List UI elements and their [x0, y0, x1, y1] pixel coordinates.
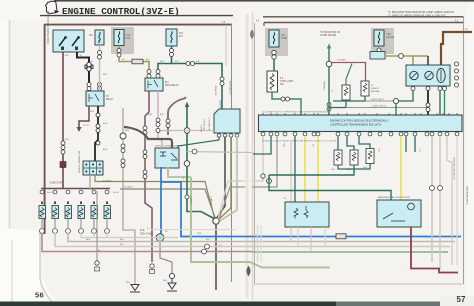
- svg-text:B-R: B-R: [196, 61, 200, 63]
- injector bus wire (maroon): [41, 188, 110, 190]
- connector big circle on gray: [120, 133, 126, 139]
- right page frame top line 2 (bus): [264, 22, 463, 24]
- svg-text:CONTROLLED TRANSMISSION ECU (A: CONTROLLED TRANSMISSION ECU (A/T): [330, 123, 381, 127]
- wire teal merge to node: [269, 169, 354, 175]
- wire below fuel pump to ground: [160, 241, 172, 273]
- injector I6: [104, 190, 111, 233]
- wire teal ECU to solenoid S3: [359, 136, 370, 149]
- wire yellow TPS feed 1: [304, 136, 306, 202]
- svg-text:W-R: W-R: [284, 142, 286, 147]
- TPS drop 4: [324, 227, 326, 247]
- connector node on teal vertical lower: [184, 161, 190, 167]
- connector stack right of cluster: [455, 62, 459, 87]
- svg-text:W-B B-Y: W-B B-Y: [201, 124, 203, 132]
- left page frame left border: [44, 24, 46, 234]
- bus end tick left: [263, 23, 265, 27]
- svg-text:B-W: B-W: [103, 123, 107, 125]
- inline dark connector on maroon feed: [60, 162, 66, 168]
- connector circles under fuse F3: [170, 49, 174, 57]
- scan bottom edge shadow: [0, 302, 474, 306]
- wire dark from check connector right at B-O row: [95, 175, 215, 218]
- relay R2 EFI main relay: [145, 78, 163, 91]
- wire teal from ECU stub to circuit opening relay: [178, 137, 219, 149]
- fuse F4 STOP: [269, 30, 279, 47]
- wire teal vertical into node: [268, 175, 270, 179]
- wire white pair vertical 2: [439, 136, 441, 270]
- teal drop below band 2: [414, 136, 416, 152]
- svg-text:B-O: B-O: [206, 239, 210, 241]
- wire blue from circuit opening relay to fuel pump: [160, 167, 162, 234]
- svg-text:+B +B1 BATT IGT: +B +B1 BATT IGT E1 OX THW VTA IDL VC E2 …: [262, 111, 330, 114]
- wire crossing spine row 2: [219, 187, 245, 220]
- svg-text:E01 E02 No.10 No.20 STA: E01 E02 No.10 No.20 STA VF T TE1 TE2 VAF…: [262, 140, 337, 143]
- wire white short row from injectors 4-6: [81, 233, 178, 238]
- svg-text:P-R (A/T): P-R (A/T): [337, 59, 347, 62]
- svg-text:B-Y(A/T) B-O: B-Y(A/T) B-O: [208, 117, 211, 130]
- wire teal TPS feed: [294, 136, 296, 202]
- svg-text:FROM POWER SOURCE SYS: FROM POWER SOURCE SYS: [47, 11, 50, 44]
- faint stub vertical near spine 1: [257, 225, 259, 262]
- svg-text:TO ST: TO ST: [83, 125, 90, 127]
- wire green stop light switch to ECU: [272, 92, 301, 115]
- combination meter pins: [411, 87, 447, 91]
- wire teal from fuse F3: [158, 46, 172, 78]
- right page frame top line 1: [263, 16, 463, 18]
- connector pair above ECU on teal: [327, 103, 331, 112]
- wire sage from circuit opening relay: [168, 167, 191, 177]
- svg-text:TO A/C AMPLIFIER: TO A/C AMPLIFIER: [466, 185, 469, 205]
- svg-text:ENGINE: ENGINE: [371, 91, 380, 93]
- right page frame right border: [463, 16, 465, 284]
- inline connector on blue SPD: [336, 234, 346, 239]
- connector on gray lower: [121, 144, 125, 168]
- connector on black wire: [85, 62, 93, 71]
- svg-text:STOP LIGHT: STOP LIGHT: [280, 81, 294, 83]
- svg-text:W-B: W-B: [126, 282, 131, 284]
- wire yellow ECU to neutral start switch: [400, 136, 402, 200]
- svg-text:PARK/NEUTRAL POSITION SW: PARK/NEUTRAL POSITION SW: [378, 196, 411, 199]
- ECU band: [259, 115, 463, 132]
- wire maroon from relay R1 with arrow to ST relay: [79, 106, 89, 127]
- svg-text:B-R(A/T): B-R(A/T): [219, 99, 222, 108]
- left page frame top border: [44, 24, 232, 26]
- wire gray curve from upper right: [168, 98, 186, 135]
- assorted wire code labels left page: [47, 55, 202, 246]
- wire teal ECU to solenoid S2: [347, 136, 354, 150]
- wire black cluster to ECU: [427, 91, 429, 116]
- faint stub vertical near spine 2: [260, 225, 262, 262]
- wire blue SPD long horizontal: [161, 182, 461, 237]
- solenoid resistor S1: [334, 150, 342, 165]
- wire teal fuse F4 to stop light switch: [273, 59, 275, 71]
- svg-text:W-B: W-B: [163, 280, 168, 282]
- connector stack on maroon drop: [143, 126, 147, 179]
- injector 5 drop: [93, 233, 95, 238]
- left page frame right border: [231, 24, 233, 282]
- svg-text:G-W(A/T): G-W(A/T): [323, 81, 326, 90]
- wire teal branch to ECU stub: [172, 64, 223, 110]
- injector I5: [91, 190, 98, 233]
- svg-text:B-W: B-W: [148, 114, 152, 116]
- connector node on teal vertical upper: [184, 128, 190, 134]
- connector below fuel pump: [169, 273, 174, 278]
- wire brown from frame corner to combination meter: [441, 32, 472, 65]
- svg-text:ENGINE CONTROL MODULE ELECTRON: ENGINE CONTROL MODULE ELECTRONICALLY: [330, 119, 389, 123]
- svg-text:7.5A: 7.5A: [386, 33, 391, 36]
- combination meter box: [406, 65, 450, 86]
- bottom-left page curl: [0, 228, 58, 306]
- circuit opening relay: [155, 148, 179, 168]
- page spine gutter: [239, 10, 253, 306]
- junction node big circle: [213, 218, 219, 224]
- svg-text:15A: 15A: [281, 34, 286, 37]
- wire olive junction block to combination meter: [385, 55, 428, 57]
- ground G1: [130, 285, 140, 293]
- wire white pair vertical 1: [431, 136, 433, 262]
- spine staple bottom: [247, 266, 251, 276]
- svg-text:STOP: STOP: [281, 38, 288, 40]
- resistor box A: [342, 85, 350, 100]
- svg-text:B-W: B-W: [90, 111, 94, 113]
- wire gray diag to junction node: [220, 137, 238, 222]
- band top pin ticks: [263, 113, 457, 115]
- svg-text:L-R: L-R: [313, 143, 315, 147]
- title underline: [40, 15, 233, 17]
- wire black diag from ECU stub to junction node: [217, 137, 225, 218]
- wire white ECU pin 277 down: [252, 136, 277, 187]
- thick dark feed into COR top: [124, 127, 172, 148]
- svg-text:COMB. METER: COMB. METER: [320, 35, 337, 37]
- wire olive from fuse F2 to relay R2: [119, 46, 149, 79]
- dark drop into cluster: [427, 56, 429, 65]
- wire black from ignition switch to relay R1: [77, 52, 89, 91]
- svg-text:G-B(A/T): G-B(A/T): [190, 196, 193, 205]
- connector on white row: [205, 244, 210, 249]
- stop light switch: [267, 71, 278, 92]
- svg-text:7.5A: 7.5A: [126, 34, 131, 37]
- left paper margin: [0, 0, 10, 306]
- svg-text:B-B: B-B: [160, 114, 164, 116]
- small filter box on maroon drop: [150, 270, 155, 274]
- svg-text:MAIN RELAY: MAIN RELAY: [165, 84, 179, 87]
- spine staple top: [250, 30, 253, 39]
- connector on maroon feed: [61, 141, 65, 154]
- bottom area code labels: [86, 239, 223, 284]
- wire dark second row B-Y: [120, 189, 216, 219]
- wire gray row at y130: [158, 130, 214, 132]
- ECU stub pins: [217, 134, 239, 138]
- svg-text:A/T FIELD: A/T FIELD: [215, 85, 218, 95]
- svg-text:*1 (A/T ONLY): *1 (A/T ONLY): [370, 98, 384, 101]
- solenoid resistor S2: [350, 150, 358, 165]
- svg-text:Y-G: Y-G: [420, 148, 422, 152]
- wire teal cluster right to ECU: [439, 91, 441, 116]
- wire white right short 2: [456, 136, 458, 265]
- svg-text:*2 (A/T ONLY): *2 (A/T ONLY): [372, 105, 386, 108]
- wire white row from injector 3: [55, 233, 450, 247]
- TPS drop 3: [310, 227, 312, 252]
- wire sage long to right page: [191, 177, 330, 268]
- svg-text:TE1 TE2 E1: TE1 TE2 E1: [204, 118, 206, 130]
- connector pairs above relay R1: [87, 83, 102, 91]
- connector node on *1 row: [393, 98, 398, 103]
- svg-text:EFI: EFI: [165, 82, 169, 84]
- fuse F3 EFI: [166, 29, 177, 46]
- injector 6 drop: [106, 233, 108, 238]
- wire dark below junction to bottom: [215, 224, 217, 290]
- svg-text:No.10: No.10: [47, 192, 53, 194]
- connector node on green vertical: [326, 61, 332, 67]
- svg-text:W-B: W-B: [140, 230, 145, 232]
- svg-text:57: 57: [457, 295, 466, 304]
- band bottom pin stubs: [263, 131, 457, 133]
- ECU stub box (left page edge): [214, 109, 240, 133]
- title icon: [46, 1, 58, 14]
- fuel pump: [156, 234, 164, 242]
- connector pair on white verticals: [430, 186, 443, 191]
- connector on that wire: [95, 261, 99, 265]
- wire teal node down and long right: [269, 178, 391, 201]
- wire thin row *1: [365, 100, 394, 102]
- svg-text:CHECK CONNECTOR: CHECK CONNECTOR: [79, 150, 81, 173]
- svg-text:B-R: B-R: [175, 61, 179, 63]
- wire green cluster right to ECU: [444, 91, 446, 116]
- right page outer margin: [468, 3, 474, 298]
- fuse F5 GAUGE: [374, 30, 384, 46]
- teal drop below band 1: [405, 136, 407, 152]
- svg-text:B-O(A/T): B-O(A/T): [210, 196, 213, 205]
- connector small on teal vertical bottom: [185, 195, 189, 199]
- throttle position sensor box: [285, 202, 329, 227]
- wire gray row from injector 2: [68, 233, 455, 242]
- wire yellow TPS feed 2: [317, 136, 319, 202]
- svg-text:INJECTOR: INJECTOR: [50, 182, 62, 185]
- wire teal ECU to left page row: [253, 136, 271, 154]
- svg-text:B-Y: B-Y: [122, 59, 126, 61]
- wire teal long vertical with up arrow: [187, 106, 214, 219]
- fuse F2 gray pad: [111, 27, 134, 54]
- ignition switch SW1: [53, 30, 84, 52]
- right page frame bottom border: [254, 283, 463, 285]
- faint gray vertical near left page right edge: [225, 25, 227, 66]
- wire pink from relay R2 to circuit opening relay: [158, 91, 162, 148]
- svg-text:W-B: W-B: [125, 130, 130, 132]
- wire maroon from relay R2 down long: [145, 91, 152, 262]
- svg-text:B-Y(A/T): B-Y(A/T): [124, 186, 133, 189]
- connector under fuse F5: [377, 48, 381, 57]
- svg-text:GAUGE: GAUGE: [386, 36, 395, 39]
- connectors on black check wire: [96, 113, 100, 145]
- TPS bottom drops to rows: [290, 227, 292, 242]
- wire green indicator vertical with up arrow: [328, 47, 330, 115]
- junction block small box: [370, 52, 385, 60]
- svg-text:W-R: W-R: [103, 74, 108, 76]
- svg-text:RELAY: RELAY: [106, 98, 114, 101]
- connector node on teal return: [267, 179, 272, 184]
- noise filter box: [95, 267, 100, 271]
- injector I3: [65, 190, 72, 233]
- injector I4: [78, 190, 85, 233]
- inline connector on teal branch: [186, 62, 195, 66]
- connector under fuse F4: [272, 50, 276, 59]
- wire white TPS feed: [290, 141, 292, 202]
- wire thin row *2: [346, 107, 428, 109]
- fuse F2 7.5A IGN: [114, 30, 124, 46]
- wire gray row at y151 crossing to right page: [187, 152, 252, 153]
- connector on gray curve: [166, 119, 170, 128]
- wire maroon branch to resistor A: [332, 63, 366, 82]
- wire green branch to lamp B: [346, 64, 352, 86]
- connector near bottom of maroon drop: [150, 264, 154, 268]
- svg-text:B-R: B-R: [65, 139, 69, 141]
- svg-text:*1: MALFUNCTION INDICATOR LAMP: *1: MALFUNCTION INDICATOR LAMP CHECK CIR…: [388, 10, 455, 14]
- relay R2 top pin circles: [147, 70, 160, 79]
- wire white ECU to left page row: [252, 136, 263, 181]
- svg-text:TO CRUISE CONTROL: TO CRUISE CONTROL: [454, 156, 456, 180]
- injector I2: [52, 190, 59, 233]
- wire white right short 1: [447, 136, 452, 265]
- injector I1: [39, 190, 46, 233]
- connector circles under fuse F2: [117, 49, 121, 58]
- solenoid resistor S3: [366, 149, 374, 164]
- svg-text:EFI: EFI: [179, 36, 183, 38]
- wire teal lamp B down then left: [333, 96, 365, 101]
- wire gray long vertical to ground: [123, 108, 135, 284]
- wire black from relay R1 to check connector: [95, 106, 98, 161]
- svg-text:T.P: T.P: [283, 198, 287, 200]
- faint row above cross rows: [150, 229, 236, 231]
- connector on teal vertical: [220, 77, 224, 86]
- svg-text:B-Y: B-Y: [146, 59, 150, 61]
- ground G2: [167, 279, 177, 291]
- wire green row right page: [252, 251, 448, 253]
- svg-text:56: 56: [35, 291, 44, 300]
- right page frame left border: [254, 23, 256, 284]
- ECU band bottom pin circles: [261, 132, 459, 136]
- wire maroon main feed from ignition switch: [62, 52, 64, 189]
- inline connector on olive wire: [132, 59, 143, 64]
- svg-text:CONTROLLED: CONTROLLED: [230, 80, 232, 95]
- wire teal speedo to *1 row: [396, 91, 413, 102]
- wire olive diag to junction node: [219, 137, 232, 220]
- injector pin squares: [41, 202, 108, 205]
- wire teal ECU to solenoid S1: [337, 136, 339, 150]
- wire crossing spine row 1: [218, 181, 245, 219]
- svg-text:No.20: No.20: [113, 192, 119, 194]
- check connector: [83, 161, 103, 175]
- wire gray from check connector down: [90, 175, 97, 263]
- olive drop into cluster: [412, 56, 414, 65]
- neutral start switch box: [377, 200, 421, 227]
- wire teal solenoid returns merge: [338, 164, 370, 170]
- svg-text:SPD: SPD: [197, 233, 202, 235]
- svg-text:B-Y: B-Y: [184, 97, 188, 99]
- connector on pink: [156, 118, 160, 127]
- rotated pin code labels below band: [284, 142, 422, 152]
- wire pink row from injector 1: [42, 233, 252, 252]
- fuse F5 gray pad: [371, 28, 394, 54]
- svg-text:B-B: B-B: [160, 61, 164, 63]
- svg-text:B-W: B-W: [103, 149, 107, 151]
- wire white from fuse F1 to relay R1: [99, 45, 101, 91]
- solenoid S2 return: [353, 165, 355, 169]
- wire teal resistor A to ECU tee: [329, 100, 346, 108]
- wire maroon from neutral switch to right edge: [411, 227, 458, 273]
- svg-text:CHECK: CHECK: [371, 88, 379, 90]
- TPS drop 2: [297, 227, 299, 247]
- svg-text:B-R: B-R: [65, 55, 69, 57]
- connector on gray row y151: [192, 149, 197, 154]
- svg-text:15A: 15A: [89, 34, 94, 37]
- connector on black cluster wire: [426, 103, 430, 112]
- connector on white crossing wire: [261, 174, 265, 178]
- scan top edge line: [54, 0, 474, 2]
- connector on gray row y130: [156, 129, 160, 133]
- wire teal node to ECU: [395, 104, 397, 115]
- connector on green stop wire: [281, 97, 290, 101]
- svg-text:B-O(A/T): B-O(A/T): [103, 180, 112, 183]
- connector on pink row: [202, 249, 207, 254]
- connector on white wire: [98, 51, 102, 60]
- svg-text:15A: 15A: [179, 32, 184, 35]
- connector on olive cluster wire: [399, 54, 404, 59]
- svg-text:IGN: IGN: [126, 38, 130, 40]
- svg-text:TO INDICATOR OF: TO INDICATOR OF: [320, 31, 341, 34]
- relay R1 ignition relay: [86, 91, 104, 106]
- fuse F1 15A: [95, 30, 104, 45]
- lamp box B check engine: [361, 81, 369, 96]
- fuse F4 STOP gray pad: [265, 28, 288, 56]
